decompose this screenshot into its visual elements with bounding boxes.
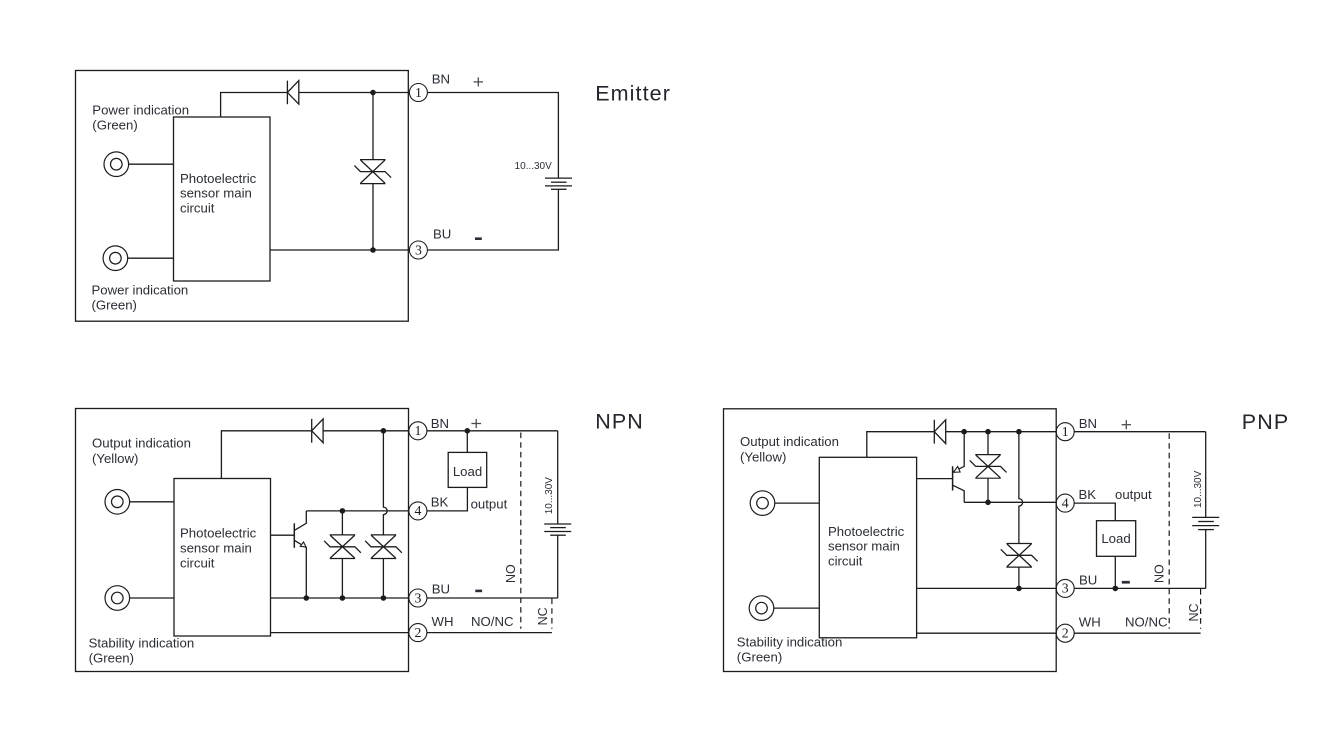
dashed line NC (NPN) [551, 599, 553, 629]
wire WH main circuit to terminal 2 (PNP) [917, 632, 1057, 634]
wire load to terminal 4 [427, 487, 468, 511]
junction node F (transistor emitter tap) [961, 429, 967, 435]
sensor enclosure box (PNP) [724, 409, 1057, 672]
svg-text:3: 3 [415, 242, 422, 257]
terminal pin 1 (PNP) [1056, 423, 1074, 441]
wire WH main circuit to terminal 2 [271, 632, 410, 634]
indicator LED lower (Green) PNP [749, 596, 774, 621]
svg-text:circuit: circuit [828, 554, 863, 569]
wire battery bottom (PNP) [1205, 530, 1207, 589]
svg-text:(Green): (Green) [92, 298, 137, 313]
svg-text:WH: WH [1079, 615, 1101, 630]
indicator LED upper (Yellow) [105, 490, 130, 515]
wire diode to terminal 1 (PNP BN rail) [946, 431, 1057, 433]
load box (PNP) [1097, 521, 1136, 557]
junction load-BU [1113, 586, 1119, 592]
transistor Q2 (PNP) [917, 432, 965, 503]
svg-text:(Green): (Green) [89, 651, 134, 666]
svg-text:sensor main: sensor main [180, 541, 252, 556]
svg-text:1: 1 [414, 423, 421, 438]
svg-text:(Yellow): (Yellow) [740, 449, 786, 464]
indicator LED lower (Green) [105, 586, 130, 611]
svg-text:BK: BK [431, 495, 449, 510]
terminal pin 3 [409, 241, 427, 259]
svg-text:(Green): (Green) [92, 118, 137, 133]
terminal pin 1 (NPN) [409, 422, 427, 440]
terminal pin 3 (NPN) [409, 589, 427, 607]
svg-text:NO/NC: NO/NC [1125, 615, 1168, 630]
svg-text:circuit: circuit [180, 201, 215, 216]
minus sign (NPN) [475, 590, 482, 593]
wire TVS Z2 to BU rail [341, 559, 343, 599]
terminal pin 3 (PNP) [1056, 579, 1074, 597]
svg-text:PNP: PNP [1242, 410, 1290, 434]
plus sign (NPN) [471, 419, 481, 428]
svg-text:Stability indication: Stability indication [89, 636, 195, 651]
load box (NPN) [448, 452, 487, 487]
dashed line NC (PNP) [1200, 589, 1202, 629]
wire terminal 2 to NC line (PNP) [1074, 632, 1200, 634]
svg-text:Power indication: Power indication [92, 102, 189, 117]
junction Z3-BU [381, 595, 387, 601]
junction node D (load tap) [465, 428, 471, 434]
wire node H down with hop over BK rail [1019, 432, 1023, 544]
svg-text:BU: BU [432, 582, 450, 597]
svg-text:Output indication: Output indication [92, 435, 191, 450]
battery B1 [545, 178, 572, 189]
photoelectric sensor main circuit box (NPN) [174, 479, 271, 637]
svg-text:BN: BN [432, 72, 450, 87]
wire battery bottom (NPN) [557, 535, 559, 598]
svg-text:circuit: circuit [180, 556, 215, 571]
wire BU main circuit to terminal 3 [270, 249, 410, 251]
svg-text:sensor main: sensor main [828, 539, 900, 554]
junction node E (TVS Z2 top) [340, 508, 346, 514]
junction node G (TVS Z4 tap) [985, 429, 991, 435]
svg-text:Load: Load [1101, 531, 1130, 546]
svg-text:Stability indication: Stability indication [737, 635, 843, 650]
terminal pin 1 [409, 84, 427, 102]
svg-text:Power indication: Power indication [92, 282, 189, 297]
svg-text:Photoelectric: Photoelectric [180, 171, 257, 186]
TVS diode Z3 (bidirectional zener) [365, 535, 402, 559]
wire BK rail from collector to terminal 4 [306, 510, 409, 512]
svg-text:Photoelectric: Photoelectric [828, 524, 905, 539]
wire main circuit top to diode (NPN) [221, 431, 311, 479]
svg-text:output: output [471, 497, 508, 512]
svg-text:NO: NO [504, 564, 518, 583]
svg-text:NC: NC [1187, 603, 1201, 621]
svg-text:1: 1 [415, 85, 422, 100]
junction node A [370, 90, 376, 96]
wire diode to node A [299, 92, 373, 94]
minus sign (PNP) [1122, 581, 1130, 584]
indicator LED lower (Green) [103, 246, 128, 271]
wire terminal 2 to NC line [427, 632, 552, 634]
terminal pin 2 (NPN) [409, 624, 427, 642]
wire TVS Z1 to node B [372, 184, 374, 250]
photoelectric sensor main circuit box (Emitter) [174, 117, 271, 281]
junction emitter-BU [304, 595, 310, 601]
label Stability indication (Green) [89, 636, 195, 666]
svg-text:NO: NO [1152, 564, 1166, 583]
svg-text:NO/NC: NO/NC [471, 614, 514, 629]
label Power indication (Green) lower [92, 282, 189, 312]
wire BU rail (PNP) [917, 587, 1057, 589]
wire upper LED to main circuit (NPN) [130, 501, 174, 503]
dashed line NO (NPN) [520, 433, 522, 629]
svg-text:Load: Load [453, 464, 482, 479]
svg-text:Output indication: Output indication [740, 434, 839, 449]
label Output indication (Yellow) PNP [740, 434, 839, 464]
wire lower LED to main circuit [128, 257, 174, 259]
junction Z4-BK [985, 500, 991, 506]
svg-text:NPN: NPN [595, 410, 644, 434]
wire upper LED to main circuit (PNP) [775, 502, 820, 504]
diode D3 [934, 420, 945, 444]
wire node C to terminal 1 (NPN) [383, 430, 409, 432]
TVS diode Z5 (bidirectional zener) [1001, 544, 1038, 568]
svg-text:BN: BN [1079, 416, 1097, 431]
svg-text:sensor main: sensor main [180, 186, 252, 201]
minus sign [475, 237, 482, 240]
junction Z2-BU [340, 595, 346, 601]
sensor enclosure box (Emitter) [76, 71, 409, 322]
transistor Q1 (NPN) [271, 511, 307, 598]
svg-text:3: 3 [1062, 581, 1069, 596]
junction node B [370, 247, 376, 253]
terminal pin 2 (PNP) [1056, 624, 1074, 642]
junction node C [381, 428, 387, 434]
wire TVS Z3 to BU rail [382, 559, 384, 599]
svg-text:BU: BU [1079, 573, 1097, 588]
wire node A to terminal 1 [373, 92, 410, 94]
diode D2 [312, 419, 323, 443]
svg-text:Photoelectric: Photoelectric [180, 526, 257, 541]
svg-text:2: 2 [1062, 626, 1069, 641]
wire terminal 1 to battery (NPN) [427, 430, 558, 432]
battery B2 [544, 524, 571, 535]
wire main circuit top to diode (PNP) [867, 432, 935, 458]
label Output indication (Yellow) [92, 435, 191, 466]
photoelectric sensor main circuit box (PNP) [819, 457, 916, 638]
TVS diode Z4 (bidirectional zener) [970, 455, 1007, 479]
wire main circuit top to diode [221, 93, 288, 118]
wire node E down to TVS Z2 [341, 511, 343, 535]
indicator LED upper (Yellow) PNP [750, 491, 775, 516]
svg-text:2: 2 [414, 625, 421, 640]
svg-text:10...30V: 10...30V [1193, 470, 1204, 508]
svg-text:4: 4 [1062, 495, 1069, 510]
wire terminal 1 to battery (PNP) [1074, 431, 1206, 433]
TVS diode Z2 (bidirectional zener) [324, 535, 361, 559]
wire battery top (PNP) [1205, 432, 1207, 518]
svg-text:NC: NC [536, 607, 550, 625]
svg-text:BN: BN [431, 416, 449, 431]
svg-text:(Green): (Green) [737, 650, 782, 665]
wire BK rail from collector to terminal 4 (PNP) [964, 501, 1056, 503]
svg-text:10...30V: 10...30V [515, 161, 553, 172]
battery B3 [1192, 517, 1219, 529]
junction node H (TVS Z5 tap) [1016, 429, 1022, 435]
wire battery top (NPN) [557, 431, 559, 524]
plus sign (PNP) [1122, 420, 1131, 429]
wire diode to node C [323, 430, 383, 432]
svg-text:(Yellow): (Yellow) [92, 451, 138, 466]
wire node C down with hop over BK rail [383, 431, 387, 535]
svg-text:output: output [1115, 487, 1152, 502]
svg-text:WH: WH [432, 614, 454, 629]
TVS diode Z1 (bidirectional zener) [354, 160, 391, 184]
wire BU rail (NPN) [271, 597, 410, 599]
terminal pin 4 (NPN) [409, 502, 427, 520]
svg-text:4: 4 [414, 503, 421, 518]
wire lower LED to main circuit (NPN) [130, 597, 174, 599]
wire terminal 4 to load (PNP) [1074, 503, 1115, 521]
wire battery to terminal 3 [427, 189, 558, 250]
wire node G down to TVS Z4 [987, 432, 989, 455]
wire node A down to TVS Z1 [372, 93, 374, 160]
dashed line NO (PNP) [1168, 433, 1170, 628]
wire load to BU rail (PNP) [1114, 556, 1116, 588]
svg-text:Emitter: Emitter [595, 81, 671, 105]
wire terminal 1 to battery [427, 93, 558, 179]
diode D1 [287, 81, 298, 105]
junction Z5-BU [1016, 586, 1022, 592]
svg-text:3: 3 [414, 590, 421, 605]
svg-text:10...30V: 10...30V [544, 477, 555, 515]
wire upper LED to main circuit [129, 163, 174, 165]
terminal pin 4 (PNP) [1056, 494, 1074, 512]
plus sign [474, 77, 483, 86]
wire lower LED to main circuit (PNP) [774, 607, 820, 609]
wire terminal 3 to battery (NPN) [427, 597, 558, 599]
sensor enclosure box (NPN) [76, 409, 409, 672]
wire node D to load [466, 431, 468, 453]
wire terminal 3 to battery (PNP) [1074, 587, 1206, 589]
wire TVS Z4 to BK rail [987, 478, 989, 502]
label Stability indication (Green) PNP [737, 635, 843, 665]
wire TVS Z5 to BU rail [1018, 567, 1020, 588]
indicator LED upper (Green) [104, 152, 129, 177]
svg-text:BK: BK [1079, 487, 1097, 502]
label Power indication (Green) upper [92, 102, 189, 132]
svg-text:BU: BU [433, 227, 451, 242]
svg-text:1: 1 [1062, 424, 1069, 439]
